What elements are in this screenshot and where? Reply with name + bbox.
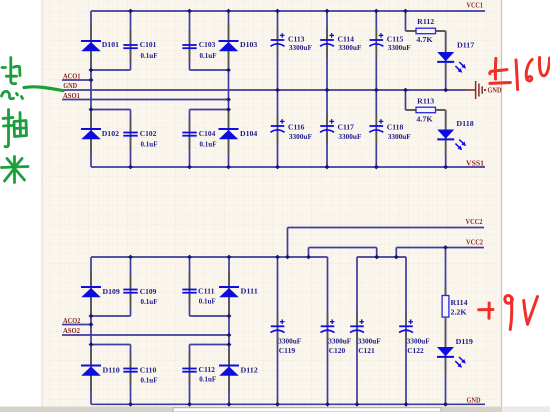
label C111 value 0.1uF xyxy=(199,297,216,306)
capacitor C103 xyxy=(182,30,196,63)
svg-text:0.1uF: 0.1uF xyxy=(141,297,158,306)
wire R112 branch from VCC1 xyxy=(405,11,407,31)
svg-text:C109: C109 xyxy=(140,287,157,296)
svg-text:C118: C118 xyxy=(387,123,404,132)
capacitor C117 xyxy=(320,113,334,144)
label C121 value 3300uF xyxy=(358,336,381,345)
svg-text:4.7K: 4.7K xyxy=(416,35,432,44)
svg-text:ASO2: ASO2 xyxy=(63,326,80,335)
node ACO2 label xyxy=(63,316,81,325)
junction GND rail dots xyxy=(275,88,448,93)
label R112 xyxy=(417,17,434,26)
label C116 xyxy=(288,123,305,132)
label C120 value 3300uF xyxy=(328,336,351,345)
svg-text:0.1uF: 0.1uF xyxy=(200,140,217,149)
wire ASO1 node y70 xyxy=(190,69,229,71)
svg-text:3300uF: 3300uF xyxy=(388,132,411,141)
wire D103-D104 column xyxy=(228,11,230,167)
svg-text:C111: C111 xyxy=(198,287,215,296)
svg-text:D110: D110 xyxy=(103,366,120,375)
wire GND mid rail xyxy=(62,89,466,91)
label C101 value 0.1uF xyxy=(141,51,158,60)
label D110 xyxy=(103,366,120,375)
capacitor C119 xyxy=(271,313,285,344)
diode D112 xyxy=(219,349,239,393)
led D118 xyxy=(437,110,466,156)
ground GND power symbol xyxy=(466,81,486,99)
svg-text:C120: C120 xyxy=(329,346,346,355)
resistor R112 xyxy=(406,28,446,34)
label C116 value 3300uF xyxy=(289,132,312,141)
diode D101 xyxy=(81,24,101,68)
svg-text:C104: C104 xyxy=(199,129,216,138)
resistor R114 xyxy=(442,285,449,328)
wire ASO2 rail xyxy=(62,334,229,336)
svg-text:R112: R112 xyxy=(417,17,434,26)
label D102 xyxy=(102,129,119,138)
junction GND bottom rail dots xyxy=(128,402,448,407)
label C112 value 0.1uF xyxy=(199,375,216,384)
capacitor C102 xyxy=(123,118,137,151)
label R114 xyxy=(451,298,468,307)
wire ACO2 node y316 xyxy=(91,315,131,317)
capacitor C101 xyxy=(123,30,137,63)
wire VCC1 rail xyxy=(91,10,485,12)
diode D103 xyxy=(219,24,239,68)
wire VCC2 vertical to upper line xyxy=(287,228,289,258)
label C112 xyxy=(199,365,216,374)
label D117 xyxy=(457,41,474,50)
wire R113 branch from GND xyxy=(405,90,407,110)
svg-text:2.2K: 2.2K xyxy=(451,308,467,317)
junction ACO1 node dots xyxy=(89,68,94,112)
svg-text:C117: C117 xyxy=(338,123,355,132)
label C119 xyxy=(279,346,296,355)
diode D109 xyxy=(81,270,101,314)
wire VSS1 rail xyxy=(91,166,485,168)
svg-text:C103: C103 xyxy=(199,40,216,49)
wire ACO1 stub xyxy=(62,79,91,81)
wire C109 column xyxy=(130,257,132,316)
handwriting red annotation +-16V xyxy=(490,58,550,90)
wire D117 anode column xyxy=(445,31,447,90)
led D117 xyxy=(437,31,466,80)
node ACO1 label xyxy=(63,71,81,80)
junction ASO2 node dots xyxy=(227,314,232,347)
svg-text:D119: D119 xyxy=(456,337,473,346)
label C103 value 0.1uF xyxy=(200,51,217,60)
label C115 value 3300uF xyxy=(388,43,411,52)
capacitor C114 xyxy=(320,27,334,58)
svg-text:4.7K: 4.7K xyxy=(416,115,432,124)
wire ACO2 node y344 xyxy=(91,344,131,346)
label C110 value 0.1uF xyxy=(141,376,158,385)
label D103 xyxy=(240,40,257,49)
svg-text:R114: R114 xyxy=(451,298,468,307)
svg-text:3300uF: 3300uF xyxy=(358,336,381,345)
label C117 value 3300uF xyxy=(338,132,361,141)
label D101 xyxy=(102,40,119,49)
svg-text:VSS1: VSS1 xyxy=(466,159,484,168)
svg-text:D111: D111 xyxy=(241,287,258,296)
wire C103-C104 column upper xyxy=(189,11,191,70)
junction VCC2 lower line dot xyxy=(443,245,448,250)
svg-text:3300uF: 3300uF xyxy=(278,336,301,345)
svg-text:GND: GND xyxy=(467,396,481,405)
svg-text:D101: D101 xyxy=(102,40,119,49)
label R113 xyxy=(417,97,434,106)
label C113 value 3300uF xyxy=(289,43,312,52)
junction VSS1 rail dots xyxy=(128,165,448,170)
label R112 value 4.7K xyxy=(416,35,432,44)
node GND label xyxy=(63,81,77,90)
label C118 xyxy=(387,123,404,132)
svg-text:ACO1: ACO1 xyxy=(63,71,81,80)
label C109 xyxy=(140,287,157,296)
wire VCC2 upper line xyxy=(288,227,485,229)
diode D102 xyxy=(81,112,101,156)
diode D111 xyxy=(219,270,239,314)
label D119 xyxy=(456,337,473,346)
svg-text:C121: C121 xyxy=(358,346,375,355)
label D118 xyxy=(456,119,473,128)
label C113 xyxy=(288,35,305,44)
label R113 value 4.7K xyxy=(416,115,432,124)
svg-text:3300uF: 3300uF xyxy=(338,43,361,52)
label C122 value 3300uF xyxy=(407,336,430,345)
node GND bottom label xyxy=(467,396,481,405)
wire C110 column xyxy=(130,345,132,405)
label R114 value 2.2K xyxy=(451,308,467,317)
label D111 xyxy=(241,287,258,296)
svg-text:3300uF: 3300uF xyxy=(328,336,351,345)
svg-text:C102: C102 xyxy=(140,129,157,138)
wire C103-C104 column lower xyxy=(189,110,191,168)
wire C120 column xyxy=(327,257,329,404)
svg-text:D117: D117 xyxy=(457,41,474,50)
node VCC2 label upper xyxy=(466,217,483,226)
wire D111-D112 column xyxy=(228,257,230,404)
node VCC2 label lower xyxy=(466,237,483,246)
svg-text:3300uF: 3300uF xyxy=(289,43,312,52)
svg-text:VCC2: VCC2 xyxy=(466,217,483,226)
label GND at symbol xyxy=(488,86,502,95)
capacitor C109 xyxy=(123,275,137,308)
node VCC1 label xyxy=(467,1,484,10)
wire ASO1 rail xyxy=(62,99,229,101)
svg-text:0.1uF: 0.1uF xyxy=(141,376,158,385)
svg-text:C122: C122 xyxy=(407,346,424,355)
label C104 value 0.1uF xyxy=(200,140,217,149)
junction ASO1 node dots xyxy=(226,68,231,112)
capacitor C111 xyxy=(182,275,196,308)
svg-text:D103: D103 xyxy=(240,40,257,49)
wire C112 column xyxy=(189,345,191,405)
handwriting red annotation +9V xyxy=(479,296,538,330)
handwriting green char 3 xyxy=(3,110,27,147)
handwriting green char 4 xyxy=(2,157,29,183)
label C121 xyxy=(358,346,375,355)
junction VCC1 rail dots xyxy=(128,9,408,14)
svg-text:3300uF: 3300uF xyxy=(338,132,361,141)
label C110 xyxy=(140,366,157,375)
wire VCC2 rail segment 1 xyxy=(91,256,328,258)
svg-text:VCC1: VCC1 xyxy=(467,1,484,10)
svg-text:C110: C110 xyxy=(140,366,157,375)
label C119 value 3300uF xyxy=(278,336,301,345)
wire ASO2 node y344 xyxy=(190,344,230,346)
wire GND bottom rail xyxy=(91,403,485,405)
wire VCC2 hop segment xyxy=(309,248,377,258)
resistor R113 xyxy=(406,107,446,113)
wire D101-D102 column xyxy=(90,11,92,167)
svg-text:0.1uF: 0.1uF xyxy=(141,51,158,60)
label C103 xyxy=(199,40,216,49)
wire VCC2 vertical to lower line xyxy=(395,248,397,258)
window bottom bar xyxy=(0,407,550,412)
wire R114-D119 column xyxy=(445,248,447,405)
svg-text:D102: D102 xyxy=(102,129,119,138)
wire C119 column xyxy=(277,257,279,404)
svg-text:0.1uF: 0.1uF xyxy=(199,375,216,384)
wire ASO2 node y316 xyxy=(190,315,230,317)
wire C121 column xyxy=(356,257,358,404)
capacitor C121 xyxy=(350,313,364,344)
svg-text:D109: D109 xyxy=(103,287,120,296)
svg-text:C116: C116 xyxy=(288,123,305,132)
svg-text:VCC2: VCC2 xyxy=(466,237,483,246)
svg-text:3300uF: 3300uF xyxy=(289,132,312,141)
wire C111 column xyxy=(189,257,191,316)
label C102 value 0.1uF xyxy=(141,140,158,149)
label D112 xyxy=(241,366,258,375)
capacitor C115 xyxy=(369,27,383,58)
label D104 xyxy=(240,129,257,138)
capacitor C110 xyxy=(123,354,137,387)
wire C101-C102 column lower xyxy=(130,110,132,168)
handwriting green char 1 xyxy=(2,58,20,84)
capacitor C122 xyxy=(399,313,413,344)
wire C113-C116 column xyxy=(277,11,279,167)
label C115 xyxy=(387,35,404,44)
capacitor C118 xyxy=(369,113,383,144)
svg-text:ACO2: ACO2 xyxy=(63,316,81,325)
wire C115-C118 column xyxy=(375,11,377,167)
svg-text:D118: D118 xyxy=(456,119,473,128)
wire C114-C117 column xyxy=(326,11,328,167)
handwriting green char 2 xyxy=(2,91,23,98)
label D109 xyxy=(103,287,120,296)
svg-text:C119: C119 xyxy=(279,346,296,355)
label C117 xyxy=(338,123,355,132)
led D119 xyxy=(437,328,466,373)
svg-text:ASO1: ASO1 xyxy=(63,91,80,100)
wire ACO1 node y109 xyxy=(91,109,131,111)
capacitor C104 xyxy=(182,118,196,151)
junction ACO2 node dots xyxy=(89,314,94,347)
wire VCC2 rail segment 2 xyxy=(357,256,406,258)
handwriting green pointer stroke xyxy=(24,87,63,91)
svg-text:C112: C112 xyxy=(199,365,216,374)
capacitor C120 xyxy=(321,313,335,344)
label C111 xyxy=(198,287,215,296)
diode D104 xyxy=(219,112,239,156)
svg-text:GND: GND xyxy=(488,86,502,95)
capacitor C116 xyxy=(271,113,285,144)
label C104 xyxy=(199,129,216,138)
label C114 xyxy=(338,35,355,44)
wire ACO1 node y70 xyxy=(91,69,131,71)
label C118 value 3300uF xyxy=(388,132,411,141)
label C122 xyxy=(407,346,424,355)
wire C101-C102 column upper xyxy=(130,11,132,70)
svg-text:3300uF: 3300uF xyxy=(388,43,411,52)
capacitor C113 xyxy=(271,27,285,58)
wire ACO2 stub xyxy=(62,324,91,326)
node ASO2 label xyxy=(63,326,80,335)
capacitor C112 xyxy=(182,354,196,387)
svg-text:C101: C101 xyxy=(140,40,157,49)
wire VCC2 lower line xyxy=(396,247,484,249)
wire C122 column xyxy=(405,257,407,404)
wire D118 column xyxy=(445,110,447,167)
node ASO1 label xyxy=(63,91,80,100)
svg-text:3300uF: 3300uF xyxy=(407,336,430,345)
wire ASO1 node y109 xyxy=(190,109,229,111)
junction VCC2 rail dots xyxy=(128,255,399,260)
label C101 xyxy=(140,40,157,49)
svg-text:R113: R113 xyxy=(417,97,434,106)
svg-text:0.1uF: 0.1uF xyxy=(141,140,158,149)
label C114 value 3300uF xyxy=(338,43,361,52)
node VSS1 label xyxy=(466,159,484,168)
label C109 value 0.1uF xyxy=(141,297,158,306)
label C120 xyxy=(329,346,346,355)
svg-text:D104: D104 xyxy=(240,129,257,138)
wire D109-D110 column xyxy=(90,257,92,404)
svg-text:0.1uF: 0.1uF xyxy=(199,297,216,306)
svg-text:D112: D112 xyxy=(241,366,258,375)
svg-text:0.1uF: 0.1uF xyxy=(200,51,217,60)
label C102 xyxy=(140,129,157,138)
svg-text:GND: GND xyxy=(63,81,77,90)
diode D110 xyxy=(81,349,101,393)
